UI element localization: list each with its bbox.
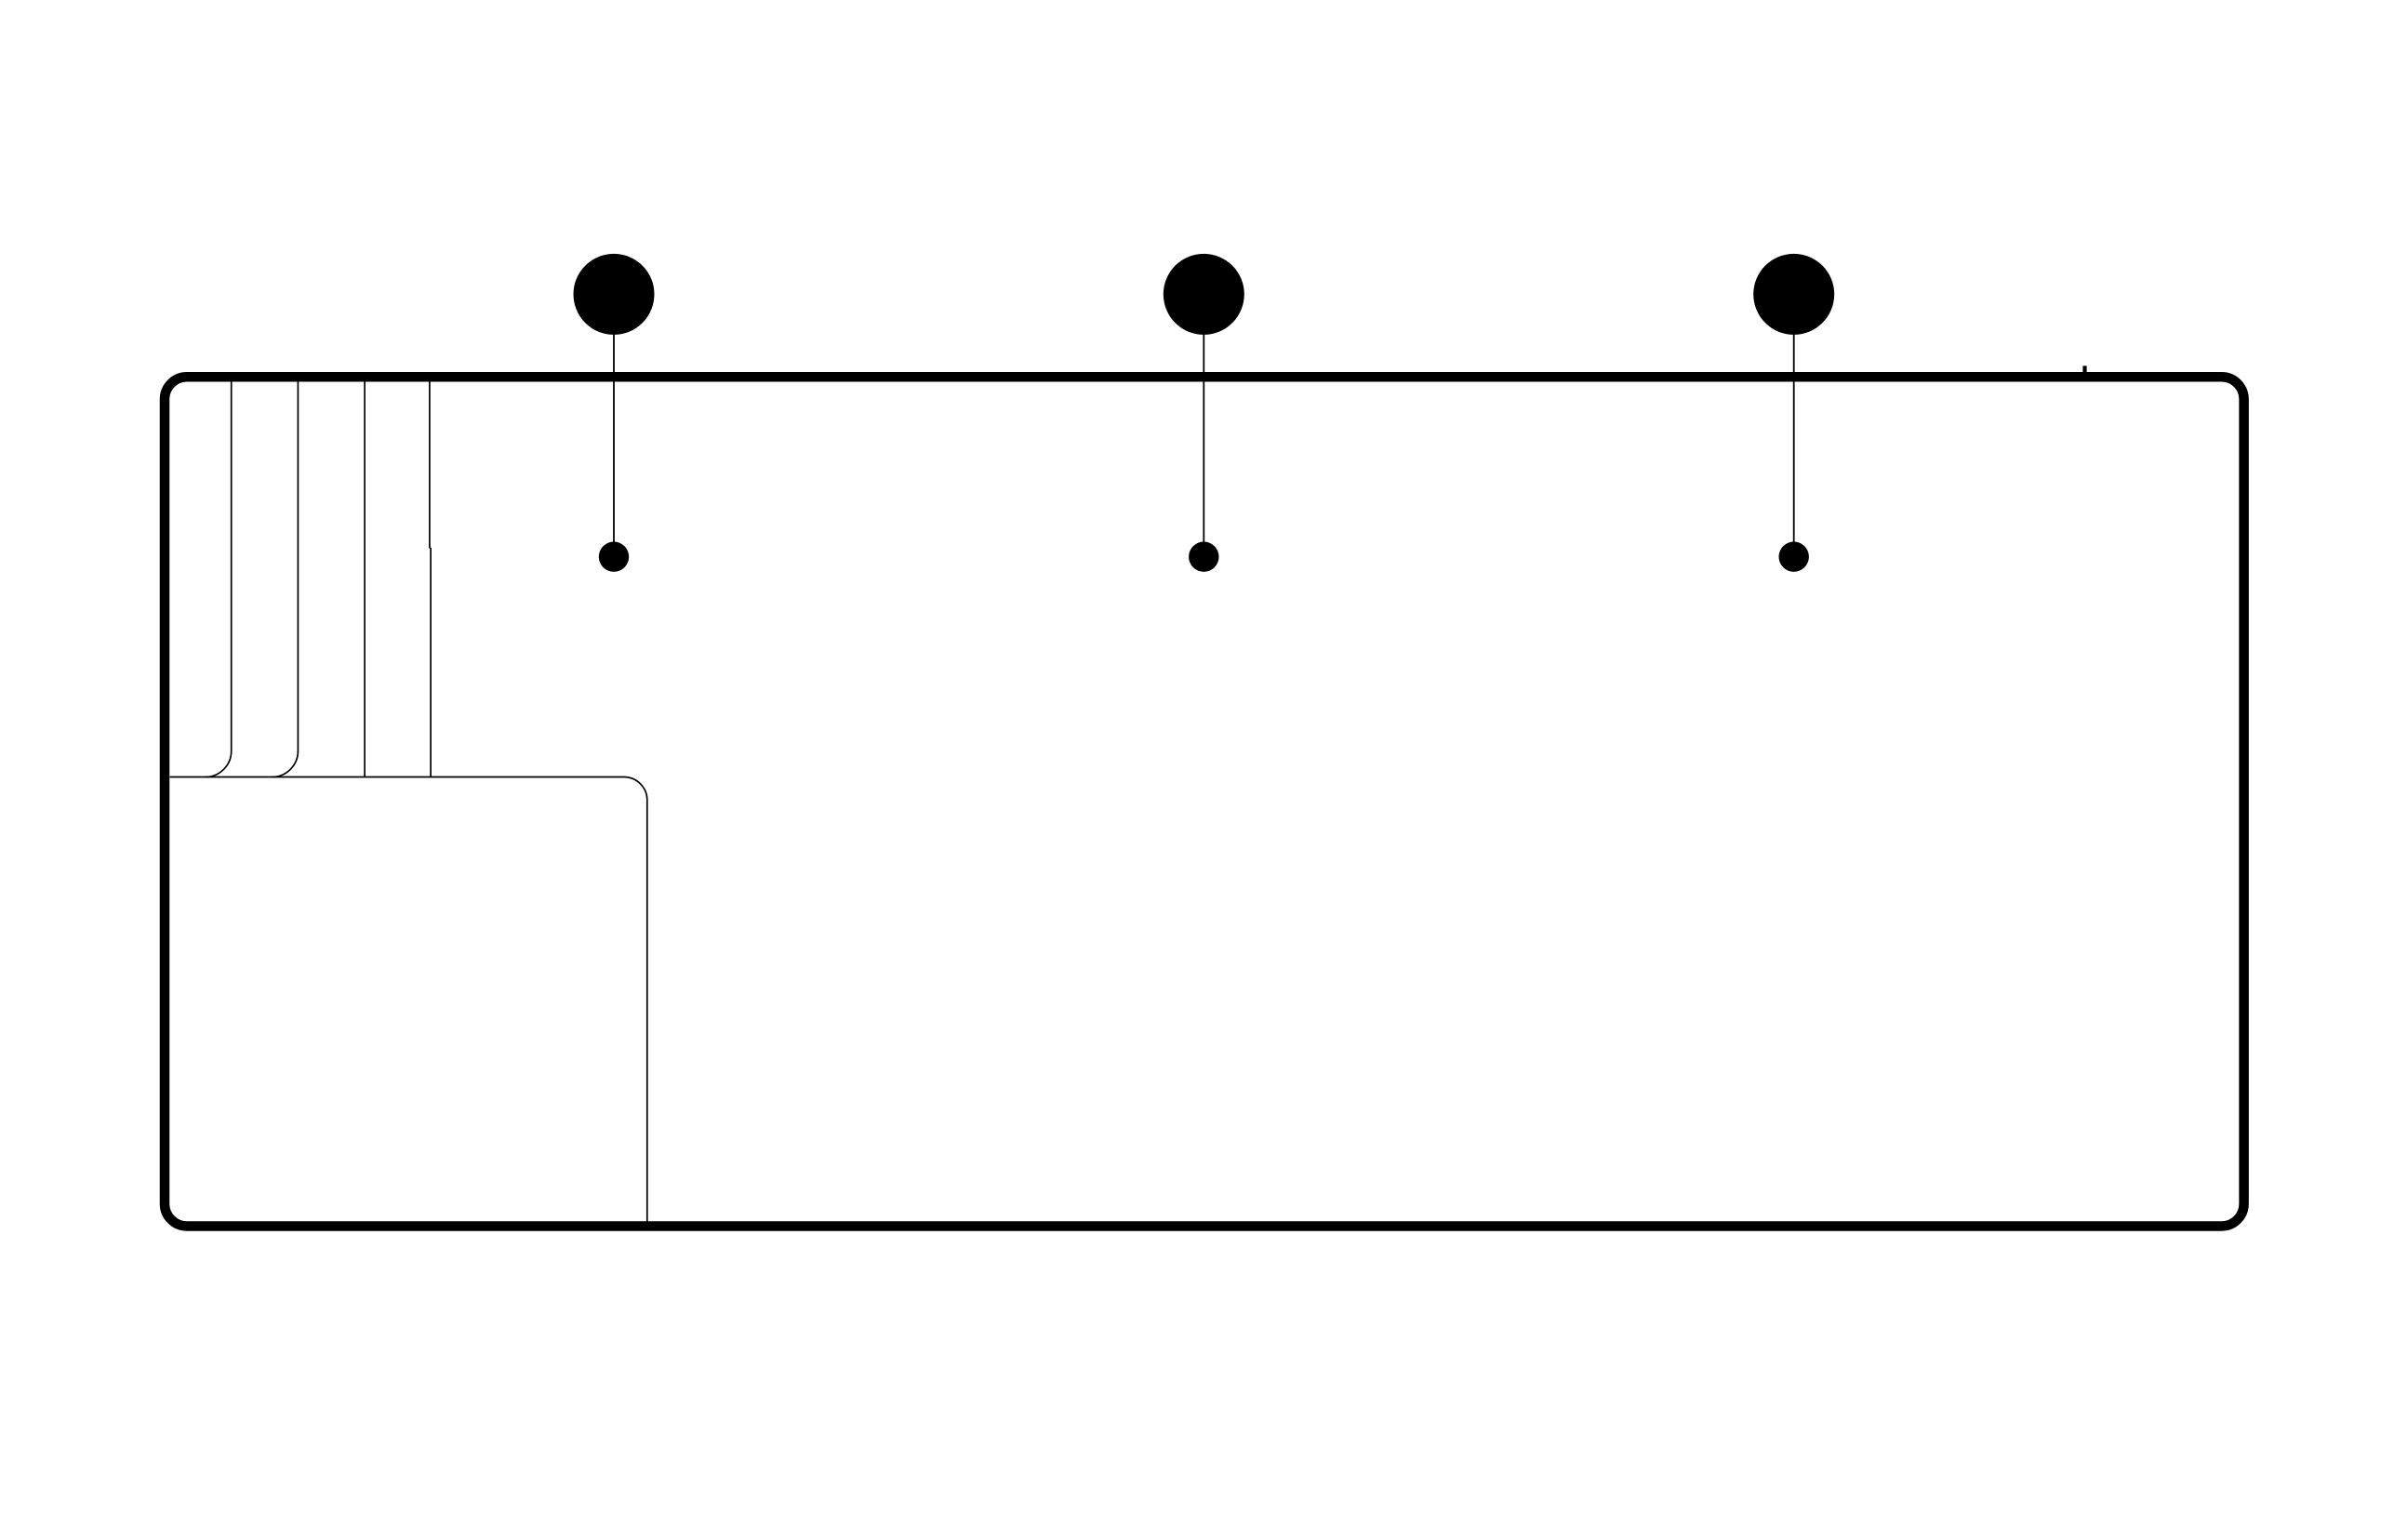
pendant lamp P2 bulb — [1189, 542, 1218, 572]
groove line 1 (curved into shelf line) — [206, 381, 232, 777]
pendant lamp P1 canopy — [574, 254, 655, 335]
pendant lamp P1 bulb — [599, 542, 629, 572]
cabinet outline (thin rounded corner shape, bottom-left) — [170, 777, 647, 1222]
tick mark on top edge — [2082, 365, 2086, 373]
pendant lamp P3 bulb — [1779, 542, 1809, 572]
counter outline (thick rounded rectangle) — [165, 377, 2244, 1226]
groove line 4 lower segment (jogged) — [430, 548, 432, 777]
pendant lamp P1 stem wire — [613, 307, 615, 556]
pendant lamp P2 stem wire — [1203, 307, 1204, 556]
pendant lamp P2 canopy — [1164, 254, 1244, 335]
groove line 3 (straight) — [364, 381, 366, 777]
pendant lamp P3 stem wire — [1793, 307, 1795, 556]
pendant lamp P3 canopy — [1753, 254, 1834, 335]
groove line 4 upper segment — [429, 381, 431, 549]
groove line 2 (curved into shelf line) — [272, 381, 298, 777]
